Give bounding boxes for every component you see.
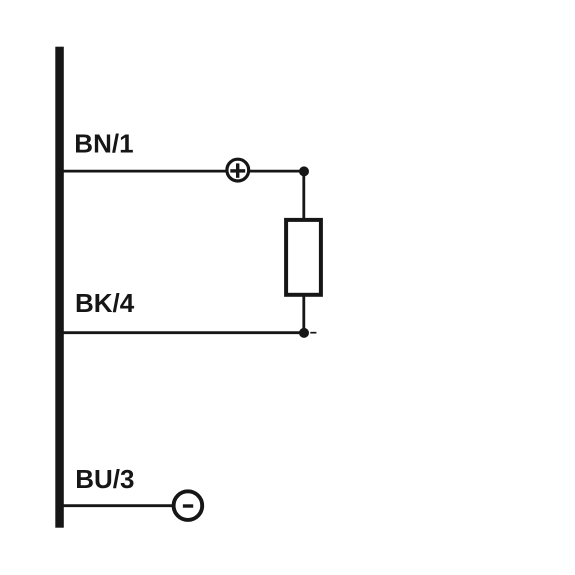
svg-text:BU/3: BU/3 bbox=[75, 464, 134, 494]
svg-text:BK/4: BK/4 bbox=[75, 288, 135, 318]
svg-text:BN/1: BN/1 bbox=[74, 128, 133, 158]
